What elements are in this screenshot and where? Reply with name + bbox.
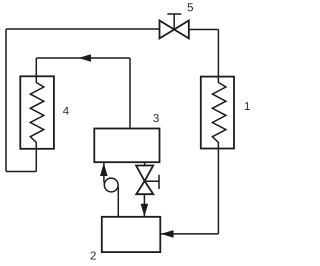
box 2 (absorber) xyxy=(102,217,161,252)
arrow: left into box 2 xyxy=(161,230,174,238)
heat exchanger 1 body xyxy=(201,77,234,149)
wire: down into heat exchanger 1 xyxy=(217,30,219,77)
label 3 xyxy=(153,114,158,122)
expansion valve lower triangle xyxy=(136,181,153,194)
wire: bottom of left loop xyxy=(6,171,36,173)
arrow: up into box 3 xyxy=(100,163,108,176)
wire: heat exchanger 4 top stub xyxy=(35,58,37,76)
wire: expansion valve down to box 2 xyxy=(143,194,145,216)
wire: left side down xyxy=(5,29,7,172)
valve 5 right triangle xyxy=(174,21,189,39)
wire: left into box 2 right side xyxy=(161,233,218,235)
wire: valve 5 left to top-left corner xyxy=(6,28,160,30)
valve 5 left triangle xyxy=(160,21,175,39)
wire: valve 5 right to top-right corner xyxy=(189,29,219,31)
box 3 (generator) xyxy=(94,129,159,163)
wire: heat exchanger 1 bottom down xyxy=(217,149,219,234)
wire: up into heat exchanger 4 bottom xyxy=(35,149,37,172)
label 1 xyxy=(245,102,250,110)
arrow: down into box 2 xyxy=(141,204,149,217)
label 4 xyxy=(63,107,69,115)
arrow: flow left on horizontal wire xyxy=(78,54,91,62)
label 2 xyxy=(91,251,96,259)
wire: horizontal to box 3 xyxy=(36,57,130,59)
wire: down into box 3 top xyxy=(129,58,131,129)
valve 5 handle bar xyxy=(167,13,181,15)
heat exchanger 4 body xyxy=(20,76,54,149)
expansion valve handle xyxy=(145,175,159,189)
label 5 xyxy=(188,3,193,11)
heat exchanger 4 coil xyxy=(30,76,44,149)
pump circle xyxy=(104,178,118,192)
wire: box 3 bottom-left down to pump xyxy=(103,163,105,183)
expansion valve upper triangle xyxy=(136,166,153,182)
wire: pump outlet down to box 2 xyxy=(117,187,119,217)
wire: box 3 to expansion valve stub xyxy=(144,162,146,165)
heat exchanger 1 coil xyxy=(212,77,226,149)
valve 5 stem xyxy=(173,14,175,30)
